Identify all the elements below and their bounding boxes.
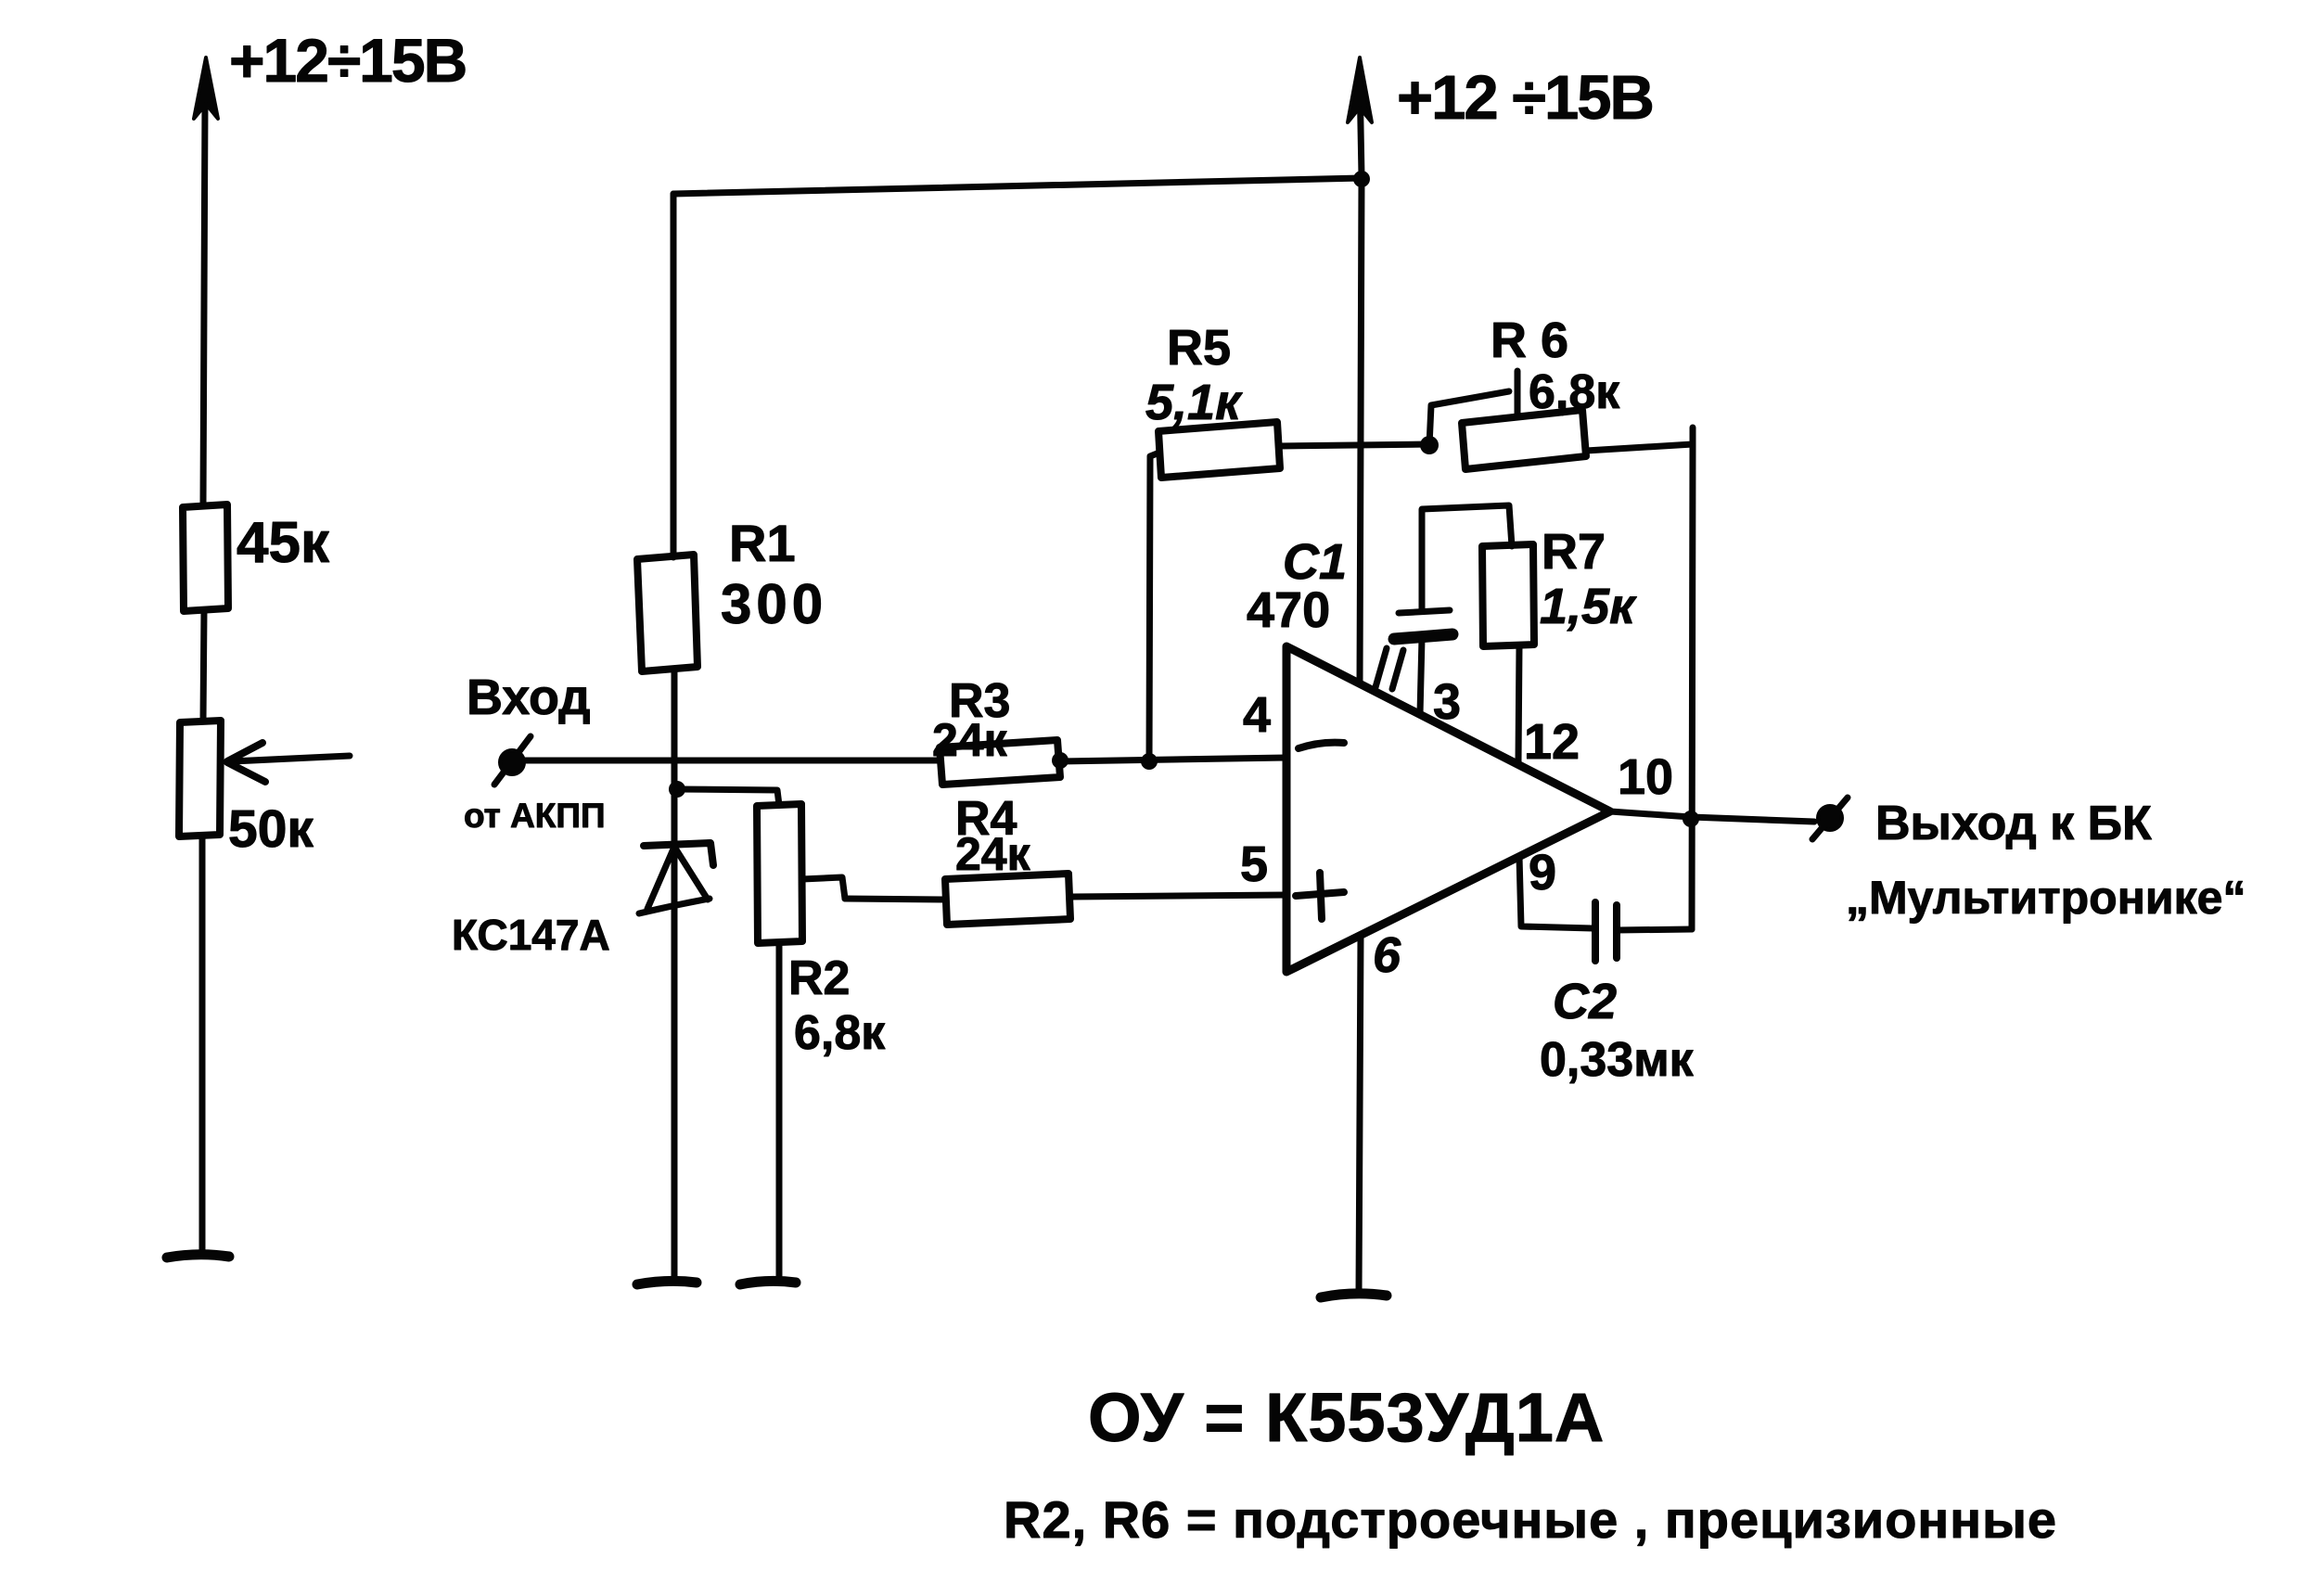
svg-text:1,5к: 1,5к (1540, 579, 1637, 634)
resistor R3 body (940, 740, 1060, 785)
capacitor C1 plates (1399, 610, 1450, 613)
zener VD KC147A cathode bar (644, 843, 713, 865)
wire R7 to pin12 (1518, 646, 1519, 762)
svg-text:R2, R6 = подстроечные , прециз: R2, R6 = подстроечные , прецизионные (1004, 1490, 2057, 1549)
svg-text:R5: R5 (1167, 320, 1231, 376)
power +12-15V arrow right (1360, 76, 1362, 176)
potentiometer 50k wiper arrow (232, 756, 350, 761)
svg-text:R7: R7 (1542, 524, 1606, 580)
trimmer R2 body (757, 804, 802, 943)
trimmer R6 body (1462, 410, 1586, 469)
wire C1 top jog to R7 (1422, 505, 1512, 610)
svg-text:9: 9 (1529, 845, 1556, 900)
svg-text:C1: C1 (1283, 534, 1347, 590)
ground left (167, 1255, 229, 1258)
svg-text:5: 5 (1240, 836, 1268, 892)
capacitor C2 plates (1592, 902, 1599, 961)
wire R3 to op-amp pin4 (1060, 758, 1286, 761)
trimmer R6 wiper (1429, 371, 1517, 445)
svg-text:470: 470 (1247, 582, 1330, 638)
wire C2 to feedback line (1617, 929, 1692, 930)
resistor 45k (183, 504, 228, 611)
svg-text:+12÷15В: +12÷15В (229, 26, 466, 95)
svg-text:0,33мк: 0,33мк (1540, 1033, 1695, 1087)
svg-text:+12 ÷15В: +12 ÷15В (1397, 63, 1653, 133)
ground under zener (637, 1281, 697, 1284)
trimmer R2 wiper (802, 877, 845, 899)
svg-text:R 6: R 6 (1491, 313, 1568, 368)
svg-text:Выход к БК: Выход к БК (1875, 797, 2152, 850)
junction output (1683, 811, 1699, 827)
wire pin6 to ground (1359, 935, 1361, 1294)
svg-text:Вход: Вход (467, 670, 591, 725)
wire R1 bottom to ground (672, 670, 678, 1280)
wire left +12 rail vertical (202, 104, 205, 1254)
junction top right (1353, 171, 1370, 187)
wire C1 bottom to pin3 (1420, 638, 1422, 714)
ground under R2 (740, 1281, 796, 1284)
svg-text:от АКПП: от АКПП (464, 797, 606, 835)
op-amp U1 triangle (1286, 646, 1610, 972)
resistor R4 body (945, 874, 1070, 925)
node ot AKPP junction (669, 781, 685, 798)
wire R5 to node (1279, 444, 1429, 446)
svg-text:24к: 24к (932, 714, 1008, 766)
svg-text:R2: R2 (788, 951, 850, 1005)
zener VD KC147A anode triangle (639, 847, 710, 913)
wire input to R3 (525, 758, 940, 764)
input terminal Vhod (500, 750, 524, 774)
svg-text:C2: C2 (1553, 974, 1617, 1029)
svg-text:12: 12 (1524, 714, 1580, 770)
svg-text:КС147А: КС147А (452, 911, 610, 959)
junction R3 node (1141, 753, 1158, 770)
power rail right vertical (1360, 178, 1362, 684)
wire output (1610, 811, 1814, 822)
svg-text:„Мультитронике“: „Мультитронике“ (1846, 872, 2246, 924)
svg-text:300: 300 (721, 573, 827, 635)
wire R4 to op-amp pin5 (1070, 895, 1286, 897)
feedback wire vertical (1692, 444, 1693, 929)
power +12-15V arrow left (194, 57, 218, 119)
svg-text:6,8к: 6,8к (794, 1006, 886, 1060)
resistor R7 body (1482, 544, 1534, 646)
svg-text:50к: 50к (228, 799, 313, 859)
wire node up to R5 (1149, 453, 1159, 761)
resistor R5 body (1158, 422, 1280, 478)
wire R2 bottom to ground (776, 943, 783, 1281)
junction R5 R6 (1420, 436, 1439, 454)
svg-text:4: 4 (1243, 687, 1271, 743)
wire R2 wiper to R4 (845, 899, 945, 900)
wire R6 to feedback line (1586, 428, 1693, 451)
pin 11 label (1376, 648, 1403, 689)
wire pin9 to C2 (1519, 856, 1593, 928)
svg-text:3: 3 (1433, 674, 1461, 730)
R3 right lead blob (1052, 752, 1068, 769)
wire R1 top lead (671, 194, 677, 557)
svg-text:10: 10 (1618, 749, 1673, 805)
ground op-amp (1321, 1294, 1387, 1297)
op-amp plus input (1296, 873, 1344, 919)
svg-text:ОУ = К553УД1А: ОУ = К553УД1А (1088, 1379, 1605, 1456)
svg-text:R1: R1 (729, 514, 796, 572)
op-amp minus input (1299, 743, 1344, 748)
svg-text:24к: 24к (955, 828, 1031, 880)
wire node to R2 (678, 789, 779, 805)
output terminal (1818, 806, 1842, 830)
svg-text:6,8к: 6,8к (1529, 365, 1620, 419)
svg-text:45к: 45к (237, 511, 330, 575)
svg-text:6: 6 (1373, 927, 1401, 983)
svg-text:5,1к: 5,1к (1145, 375, 1243, 430)
wire top from R1 to +12 rail (673, 178, 1362, 194)
resistor R1 body (637, 555, 697, 671)
potentiometer 50k body (179, 721, 221, 836)
